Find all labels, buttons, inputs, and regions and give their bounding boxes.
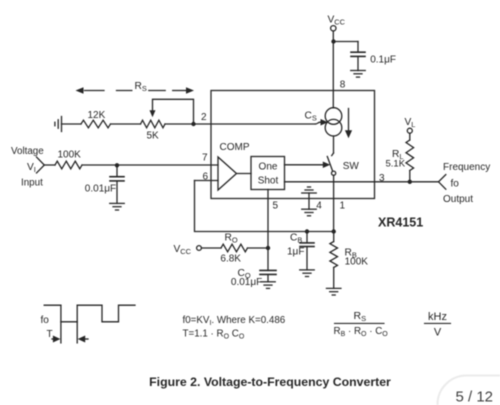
- svg-text:5.1K: 5.1K: [386, 159, 406, 170]
- svg-text:3: 3: [379, 173, 385, 184]
- svg-text:kHz: kHz: [428, 311, 447, 323]
- svg-text:0.01μF: 0.01μF: [85, 184, 116, 195]
- svg-text:XR4151: XR4151: [378, 216, 423, 230]
- svg-text:1: 1: [340, 201, 346, 212]
- svg-text:1μF: 1μF: [287, 247, 304, 258]
- svg-text:One: One: [259, 162, 278, 173]
- svg-text:2: 2: [201, 112, 207, 123]
- svg-text:V: V: [434, 326, 442, 338]
- svg-text:6: 6: [203, 172, 209, 183]
- svg-text:f0=KVI. Where K=0.486: f0=KVI. Where K=0.486: [183, 315, 286, 327]
- svg-text:Shot: Shot: [258, 175, 279, 186]
- svg-text:SW: SW: [343, 161, 360, 172]
- svg-text:Input: Input: [21, 178, 43, 189]
- svg-text:Figure 2. Voltage-to-Frequency: Figure 2. Voltage-to-Frequency Converter: [149, 375, 391, 389]
- svg-text:8: 8: [340, 80, 346, 91]
- svg-text:4: 4: [316, 201, 322, 212]
- svg-text:fo: fo: [41, 315, 50, 326]
- svg-text:5: 5: [273, 201, 279, 212]
- svg-text:Voltage: Voltage: [11, 146, 44, 157]
- svg-text:100K: 100K: [345, 257, 369, 268]
- svg-text:0.1μF: 0.1μF: [370, 55, 396, 66]
- svg-text:Output: Output: [443, 194, 473, 205]
- svg-text:fo: fo: [451, 179, 460, 190]
- svg-text:6.8K: 6.8K: [220, 254, 241, 265]
- svg-text:100K: 100K: [58, 150, 82, 161]
- svg-text:5 / 12: 5 / 12: [456, 389, 494, 405]
- svg-text:12K: 12K: [88, 110, 106, 121]
- svg-text:7: 7: [202, 153, 208, 164]
- svg-text:Frequency: Frequency: [443, 162, 490, 173]
- svg-text:T=1.1 · RO CO: T=1.1 · RO CO: [183, 329, 245, 341]
- svg-text:T: T: [47, 329, 53, 340]
- svg-text:5K: 5K: [147, 131, 160, 142]
- svg-text:0.01μF: 0.01μF: [231, 277, 262, 288]
- svg-text:COMP: COMP: [220, 142, 250, 153]
